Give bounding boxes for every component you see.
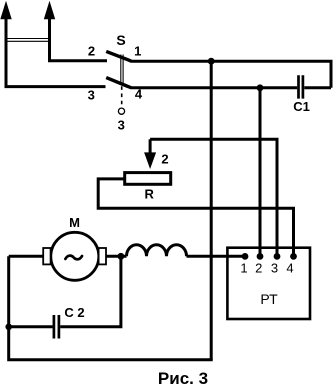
motor brush left bbox=[43, 248, 50, 264]
svg-text:C 2: C 2 bbox=[64, 305, 84, 320]
capacitor C2 plates bbox=[54, 315, 59, 339]
label 2 (wiper position) bbox=[161, 152, 168, 167]
PT terminal label 2 bbox=[255, 261, 262, 276]
PT terminal dot 4 bbox=[290, 253, 297, 260]
svg-text:R: R bbox=[145, 187, 155, 202]
label M (motor) bbox=[69, 215, 80, 230]
switch S linkage double line bbox=[121, 55, 123, 85]
resistor R body bbox=[125, 173, 171, 185]
svg-text:3: 3 bbox=[118, 117, 125, 132]
wire 1: switch to right riser bbox=[131, 61, 332, 88]
PT terminal label 3 bbox=[271, 261, 278, 276]
inductor coil L bbox=[127, 245, 187, 256]
rheostat wiper arrowhead bbox=[144, 152, 156, 169]
arrowhead left output terminal bbox=[0, 1, 11, 20]
PT terminal label 1 bbox=[240, 261, 247, 276]
wire C2 right lead and riser up to coil junction bbox=[60, 256, 121, 327]
label C 2 bbox=[64, 305, 84, 320]
label C1 bbox=[293, 99, 310, 114]
svg-text:2: 2 bbox=[255, 261, 262, 276]
wire left branch down and bottom wire to long riser bbox=[9, 256, 213, 359]
wire long riser from node A down to bottom wire bbox=[210, 61, 213, 360]
wire from left output terminal down to switch contact 3 bbox=[6, 16, 106, 87]
switch S actuator dashed line bbox=[121, 86, 123, 106]
label 3 (actuator position) bbox=[118, 117, 125, 132]
svg-text:3: 3 bbox=[271, 261, 278, 276]
switch S actuator knob circle bbox=[118, 108, 124, 114]
wire from right output terminal down to switch contact 2 bbox=[50, 16, 108, 61]
PT terminal dot 3 bbox=[274, 253, 281, 260]
label 4 (switch contact) bbox=[135, 87, 143, 102]
switch S lower blade bbox=[106, 78, 131, 88]
svg-text:1: 1 bbox=[134, 43, 141, 58]
wire from node B down to PT terminal 2 bbox=[259, 88, 262, 257]
junction dot node A on wire 1 bbox=[208, 58, 215, 65]
svg-text:4: 4 bbox=[286, 261, 293, 276]
motor brush right bbox=[99, 248, 106, 264]
PT terminal dot 2 bbox=[257, 253, 264, 260]
label S (switch) bbox=[116, 32, 125, 48]
caption Рис. 3 bbox=[158, 369, 208, 388]
capacitor C1 plates bbox=[299, 75, 303, 98]
switch S upper blade bbox=[106, 51, 131, 61]
svg-text:S: S bbox=[116, 32, 125, 48]
rheostat wiper arrow stem bbox=[149, 139, 152, 153]
label 1 (switch contact) bbox=[134, 43, 141, 58]
wire motor left lead bbox=[9, 255, 44, 258]
svg-text:2: 2 bbox=[161, 152, 168, 167]
svg-text:1: 1 bbox=[240, 261, 247, 276]
junction dot C2 left node bbox=[5, 324, 12, 331]
wire resistor R left lead loop down to PT terminal 4 bbox=[98, 179, 293, 257]
wire 4: switch to capacitor C1 bbox=[131, 86, 298, 89]
wire rheostat wiper to PT terminal 3 bbox=[150, 139, 277, 256]
wire C2 left lead bbox=[9, 325, 53, 328]
label PT bbox=[260, 291, 278, 307]
svg-text:3: 3 bbox=[88, 88, 95, 103]
PT terminal dot 1 bbox=[242, 253, 249, 260]
label 3 (switch contact) bbox=[88, 88, 95, 103]
arrowhead right output terminal bbox=[44, 1, 55, 20]
wire capacitor C1 to right riser bbox=[304, 86, 331, 89]
motor M circle bbox=[51, 232, 99, 280]
double-line link between output leads bbox=[5, 39, 51, 42]
motor tilde symbol bbox=[65, 256, 82, 260]
wire motor right lead bbox=[106, 255, 127, 258]
junction dot node B on wire 4 bbox=[257, 84, 264, 91]
wire coil to PT terminal 1 bbox=[187, 255, 246, 258]
PT box bbox=[227, 248, 310, 319]
svg-text:РТ: РТ bbox=[260, 291, 278, 307]
label 2 (switch contact) bbox=[88, 44, 95, 59]
label R bbox=[145, 187, 155, 202]
svg-text:M: M bbox=[69, 215, 80, 230]
PT terminal label 4 bbox=[286, 261, 293, 276]
svg-text:2: 2 bbox=[88, 44, 95, 59]
svg-text:C1: C1 bbox=[293, 99, 310, 114]
junction dot motor-coil node bbox=[118, 253, 125, 260]
svg-text:Рис. 3: Рис. 3 bbox=[158, 369, 208, 388]
